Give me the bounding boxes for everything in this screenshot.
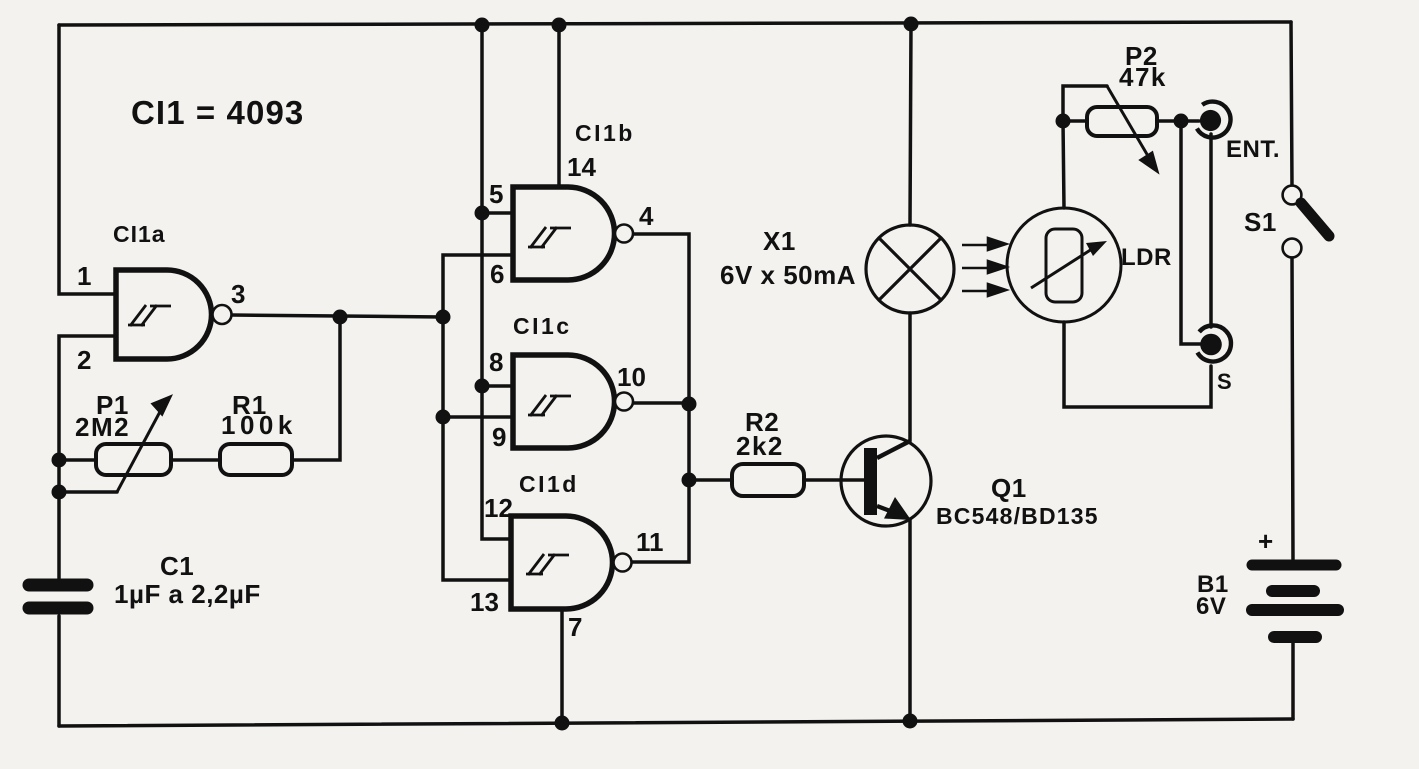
svg-text:11: 11 [636, 527, 664, 557]
svg-text:2: 2 [77, 345, 91, 375]
svg-text:6V: 6V [1196, 593, 1226, 620]
svg-text:2k2: 2k2 [736, 431, 784, 461]
svg-text:CI1b: CI1b [575, 120, 635, 146]
svg-text:1µF a 2,2µF: 1µF a 2,2µF [114, 579, 261, 609]
svg-text:10: 10 [617, 362, 646, 392]
svg-text:5: 5 [489, 179, 503, 209]
svg-text:Q1: Q1 [991, 473, 1027, 503]
svg-text:X1: X1 [763, 226, 796, 256]
svg-text:12: 12 [484, 493, 513, 523]
svg-text:CI1d: CI1d [519, 471, 579, 497]
svg-text:47k: 47k [1119, 62, 1167, 92]
svg-text:+: + [1258, 526, 1274, 556]
svg-text:3: 3 [231, 279, 245, 309]
svg-text:7: 7 [568, 612, 582, 642]
svg-text:ENT.: ENT. [1226, 136, 1280, 163]
svg-text:4: 4 [639, 201, 654, 231]
svg-text:9: 9 [492, 422, 506, 452]
svg-text:CI1c: CI1c [513, 313, 572, 339]
svg-text:1: 1 [77, 261, 91, 291]
svg-text:S: S [1217, 369, 1232, 394]
svg-text:S1: S1 [1244, 207, 1277, 237]
svg-text:C1: C1 [160, 551, 194, 581]
svg-text:100k: 100k [221, 410, 297, 440]
svg-text:14: 14 [567, 152, 596, 182]
svg-text:2M2: 2M2 [75, 412, 130, 442]
svg-text:CI1a: CI1a [113, 221, 166, 247]
svg-text:8: 8 [489, 347, 503, 377]
svg-text:13: 13 [470, 587, 499, 617]
svg-text:BC548/BD135: BC548/BD135 [936, 503, 1099, 529]
svg-text:LDR: LDR [1121, 244, 1172, 271]
svg-text:CI1 = 4093: CI1 = 4093 [131, 94, 304, 131]
svg-text:6: 6 [490, 259, 504, 289]
svg-text:6V x 50mA: 6V x 50mA [720, 260, 856, 290]
